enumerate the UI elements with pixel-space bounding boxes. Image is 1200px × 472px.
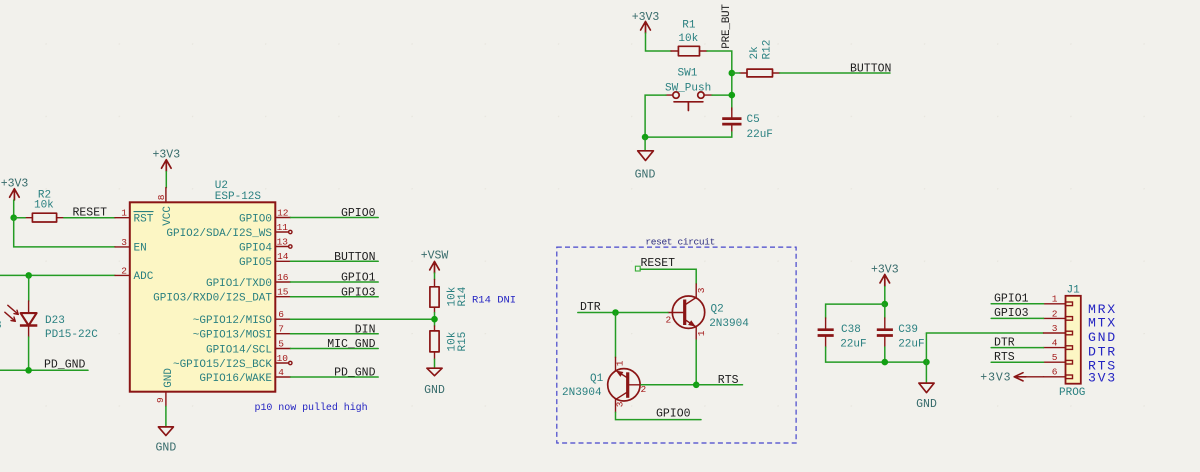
resistor R15 10k <box>430 326 469 359</box>
svg-text:GPIO16/WAKE: GPIO16/WAKE <box>199 373 272 385</box>
svg-text:PD_GND: PD_GND <box>44 358 86 371</box>
photodiode D23 PD15-22C <box>5 301 98 341</box>
pin 3 J1 <box>1044 323 1073 335</box>
wire Q2 emitter down <box>695 340 697 385</box>
pin 1 J1 <box>1044 294 1073 306</box>
wire pin6 arrow to +3V3 <box>1014 373 1043 381</box>
svg-text:GPIO0: GPIO0 <box>239 213 272 225</box>
ground GND (under U2) <box>156 427 177 455</box>
svg-text:2N3904: 2N3904 <box>562 387 602 399</box>
pin 5 GPIO14 <box>206 338 291 356</box>
power +3V3 (top left) <box>1 177 29 200</box>
svg-text:BUTTON: BUTTON <box>850 63 891 76</box>
svg-text:GPIO0: GPIO0 <box>656 407 691 420</box>
SECTION: top button circuit <box>632 4 892 182</box>
ground GND (divider) <box>424 368 445 397</box>
svg-text:14: 14 <box>277 251 289 262</box>
pin 16 GPIO1/TXD0 <box>206 272 291 290</box>
svg-text:4: 4 <box>1052 338 1058 349</box>
capacitor C38 <box>818 318 867 350</box>
svg-text:C38: C38 <box>841 324 861 336</box>
svg-text:10k: 10k <box>678 33 698 45</box>
svg-text:2: 2 <box>666 314 672 325</box>
switch SW1 SW_Push <box>665 67 712 110</box>
wire R15 to ground <box>434 359 436 368</box>
wire PD_GND rail <box>0 369 88 371</box>
svg-text:PROG: PROG <box>1059 387 1085 399</box>
ground GND (caps) <box>916 383 937 411</box>
svg-text:1: 1 <box>614 360 625 366</box>
svg-text:~GPIO13/MOSI: ~GPIO13/MOSI <box>193 330 272 342</box>
pin 15 GPIO3/RXD0 <box>153 287 290 305</box>
svg-text:RESET: RESET <box>73 206 108 219</box>
svg-text:C39: C39 <box>898 324 918 336</box>
SECTION: reset circuit <box>557 236 796 443</box>
svg-text:3: 3 <box>121 237 127 248</box>
pin 4 J1 <box>1044 338 1073 350</box>
svg-text:9: 9 <box>155 397 166 403</box>
pin 6 J1 <box>1044 367 1073 379</box>
svg-text:4: 4 <box>278 367 284 378</box>
transistor Q1 2N3904 <box>562 357 647 412</box>
wire pin14 <box>291 260 379 262</box>
svg-text:BUTTON: BUTTON <box>334 251 375 264</box>
wire +3V3 to VCC <box>165 172 167 188</box>
svg-text:PRE_BUT: PRE_BUT <box>721 4 733 49</box>
svg-text:RTS: RTS <box>994 351 1015 364</box>
svg-text:2: 2 <box>121 265 127 276</box>
pin 12 GPIO0 <box>239 207 291 225</box>
svg-text:PD15-22C: PD15-22C <box>45 329 98 341</box>
svg-text:GND: GND <box>635 169 656 182</box>
SECTION: R14 R15 divider <box>421 250 516 397</box>
wire R14 to node <box>434 313 436 327</box>
svg-text:p10 now pulled high: p10 now pulled high <box>255 402 368 414</box>
svg-text:GND: GND <box>916 398 937 411</box>
svg-text:R15: R15 <box>457 332 469 352</box>
svg-text:ADC: ADC <box>134 271 154 283</box>
wire pin16 <box>291 281 379 283</box>
svg-text:6: 6 <box>1052 367 1058 378</box>
pin 2 ADC <box>115 265 154 283</box>
wire GPIO1 to J1 <box>991 303 1043 305</box>
junction PD_GND <box>25 367 32 374</box>
pin 4 GPIO16 <box>199 367 290 385</box>
wire C39 top <box>884 304 886 318</box>
svg-text:10k: 10k <box>34 200 54 212</box>
power +3V3 (VCC pin 8) <box>152 149 180 172</box>
svg-text:8: 8 <box>156 194 167 200</box>
wire C39 bottom <box>884 347 886 362</box>
svg-text:GPIO1: GPIO1 <box>341 272 376 285</box>
svg-text:2: 2 <box>1052 308 1058 319</box>
pin 14 GPIO5 <box>239 251 291 269</box>
resistor R12 2k <box>740 40 780 77</box>
junction bottom rail <box>642 134 649 141</box>
svg-text:10: 10 <box>277 353 289 364</box>
svg-text:R1: R1 <box>682 20 696 32</box>
svg-text:~GPIO12/MISO: ~GPIO12/MISO <box>193 315 273 327</box>
SECTION: left ESP-12S <box>0 149 435 455</box>
junction divider node <box>431 316 438 323</box>
svg-text:3: 3 <box>1052 323 1058 334</box>
svg-text:GPIO1: GPIO1 <box>994 293 1029 306</box>
svg-text:16: 16 <box>277 272 289 283</box>
svg-text:EN: EN <box>134 243 147 255</box>
pin 13 stub <box>239 237 292 255</box>
wire DTR to J1 <box>991 347 1043 349</box>
svg-text:3: 3 <box>696 287 707 293</box>
svg-text:SW1: SW1 <box>678 67 698 79</box>
svg-text:MTX: MTX <box>1088 315 1117 330</box>
svg-text:MIC_GND: MIC_GND <box>327 338 375 351</box>
svg-text:GPIO2/SDA/I2S_WS: GPIO2/SDA/I2S_WS <box>166 228 272 240</box>
wire RTS node to label <box>696 384 742 386</box>
svg-text:GPIO1/TXD0: GPIO1/TXD0 <box>206 278 272 290</box>
wire DTR to Q2 base <box>578 312 668 314</box>
junction cap top node <box>882 301 889 308</box>
IC U2 ESP-12S body <box>130 180 275 392</box>
svg-text:VCC: VCC <box>162 206 174 226</box>
svg-text:GPIO0: GPIO0 <box>341 207 376 220</box>
pin 5 J1 <box>1044 352 1073 364</box>
transistor Q2 2N3904 <box>666 284 750 340</box>
svg-text:7: 7 <box>278 324 284 335</box>
svg-text:SW_Push: SW_Push <box>665 82 711 94</box>
svg-text:DTR: DTR <box>1088 344 1117 359</box>
resistor R1 <box>671 20 707 56</box>
junction SW1/C5 node <box>729 92 736 99</box>
capacitor C39 <box>877 318 925 350</box>
svg-text:15: 15 <box>277 287 289 298</box>
wire +VSW to R14 <box>434 273 436 280</box>
wire node to EN pin <box>14 218 115 247</box>
pin 11 stub <box>166 222 292 240</box>
wire node to R2 <box>14 217 26 219</box>
junction R12 branch <box>729 70 736 77</box>
svg-text:GPIO4: GPIO4 <box>239 242 272 254</box>
resistor R14 10k <box>430 280 469 313</box>
wire junction down to D23 <box>28 275 30 301</box>
wire SW1 to node <box>712 94 732 96</box>
junction DTR node <box>612 309 619 316</box>
wire Q1 base to RTS node <box>641 384 696 386</box>
wire pin5 <box>291 348 379 350</box>
capacitor C5 <box>722 108 773 141</box>
wire GPIO3 to J1 <box>991 317 1043 319</box>
svg-text:22uF: 22uF <box>747 129 773 141</box>
svg-text:J1: J1 <box>1067 285 1081 297</box>
wire RESET to Q2 collector <box>640 269 696 284</box>
pin 1 RST <box>115 208 154 226</box>
svg-text:~GPIO15/I2S_BCK: ~GPIO15/I2S_BCK <box>173 359 272 371</box>
pin 7 GPIO13 <box>193 324 291 342</box>
svg-text:GPIO3/RXD0/I2S_DAT: GPIO3/RXD0/I2S_DAT <box>153 293 272 305</box>
svg-text:GND: GND <box>1088 330 1117 345</box>
wire R2 to RST pin <box>64 217 115 219</box>
svg-text:12: 12 <box>277 207 289 218</box>
pin 9 GND <box>155 368 175 407</box>
svg-text:RST: RST <box>134 214 154 226</box>
svg-text:R12: R12 <box>762 40 774 60</box>
svg-text:22uF: 22uF <box>840 338 866 350</box>
junction C39 bottom <box>882 359 889 366</box>
wire +3V3 down <box>884 287 886 305</box>
net label RESET <box>635 257 675 271</box>
junction RST node <box>10 214 17 221</box>
power +VSW <box>421 250 449 273</box>
wire ADC from left edge <box>0 274 115 276</box>
svg-text:3V3: 3V3 <box>1088 370 1117 385</box>
svg-text:GPIO5: GPIO5 <box>239 257 272 269</box>
svg-text:1: 1 <box>1052 294 1058 305</box>
svg-text:R14 DNI: R14 DNI <box>472 295 516 307</box>
wire Q1 collector to GPIO0 <box>616 412 702 419</box>
svg-text:R14: R14 <box>457 286 469 306</box>
svg-text:Q1: Q1 <box>590 373 604 385</box>
wire pin6 to divider <box>291 318 435 320</box>
svg-text:3: 3 <box>615 401 626 407</box>
wire cap bottom rail <box>826 347 927 362</box>
svg-text:DIN: DIN <box>355 323 376 336</box>
wire DTR node down to Q1 emitter <box>615 313 617 358</box>
wire pin12 <box>291 217 379 219</box>
ground GND (button circuit) <box>635 137 656 181</box>
wire +3V3 to R1 <box>646 33 672 51</box>
power +3V3 (button circuit) <box>632 11 660 33</box>
wire gnd node up to pin3 row <box>926 333 1043 362</box>
wire gnd node down <box>925 362 927 383</box>
svg-text:1: 1 <box>121 208 127 219</box>
junction ADC/photodiode <box>25 272 32 279</box>
pin 3 EN <box>115 237 147 255</box>
svg-text:11: 11 <box>277 222 289 233</box>
svg-text:13: 13 <box>277 237 289 248</box>
svg-text:2N3904: 2N3904 <box>709 318 749 330</box>
svg-text:+VSW: +VSW <box>421 250 449 263</box>
svg-text:5: 5 <box>278 338 284 349</box>
svg-text:D23: D23 <box>45 315 65 327</box>
junction RTS node <box>693 382 700 389</box>
junction gnd node <box>923 359 930 366</box>
svg-text:GPIO14/SCL: GPIO14/SCL <box>206 344 272 356</box>
pin 10 stub <box>173 353 292 371</box>
svg-text:+3V3: +3V3 <box>980 372 1011 385</box>
svg-text:reset circuit: reset circuit <box>645 236 715 247</box>
svg-text:22uF: 22uF <box>898 338 924 350</box>
svg-text:GND: GND <box>424 384 445 397</box>
wire D23 to PD_GND rail <box>28 337 30 370</box>
svg-text:Q2: Q2 <box>711 303 724 315</box>
svg-text:5: 5 <box>1052 352 1058 363</box>
svg-text:RTS: RTS <box>718 374 739 387</box>
wire pin15 <box>291 296 379 298</box>
wire R1 to node PRE_BUT <box>707 51 732 110</box>
svg-text:PD_GND: PD_GND <box>334 367 376 380</box>
wire R12 to BUTTON <box>780 72 890 74</box>
svg-text:ESP-12S: ESP-12S <box>215 191 262 203</box>
svg-text:DTR: DTR <box>994 336 1015 349</box>
wire RTS to J1 <box>991 361 1043 363</box>
pin 8 VCC <box>156 188 174 226</box>
wire pin7 <box>291 333 379 335</box>
wire C5 to bottom rail <box>645 132 732 137</box>
power +3V3 (caps) <box>871 264 899 287</box>
wire left rail of SW1 <box>645 95 666 137</box>
svg-text:3: 3 <box>0 320 2 332</box>
wire R12 stub left <box>732 72 740 74</box>
svg-text:1: 1 <box>696 330 707 336</box>
svg-text:GND: GND <box>156 442 177 455</box>
connector J1 body <box>1059 285 1085 399</box>
resistor R2 10k <box>25 189 64 222</box>
svg-text:2k: 2k <box>749 46 761 60</box>
wire GND pin to ground <box>165 406 167 427</box>
svg-text:RESET: RESET <box>641 257 676 270</box>
svg-text:C5: C5 <box>747 114 760 126</box>
pin 6 GPIO12 <box>193 309 291 327</box>
svg-text:GPIO3: GPIO3 <box>341 286 376 299</box>
sheet box reset circuit <box>557 247 796 443</box>
wire top rail to C38 <box>826 304 885 318</box>
SECTION: caps and J1 <box>818 264 1117 411</box>
pin 2 J1 <box>1044 308 1073 320</box>
svg-text:GPIO3: GPIO3 <box>994 307 1029 320</box>
wire pin4 <box>291 376 379 378</box>
wire +3V3 to node <box>13 200 15 218</box>
svg-text:6: 6 <box>278 309 284 320</box>
